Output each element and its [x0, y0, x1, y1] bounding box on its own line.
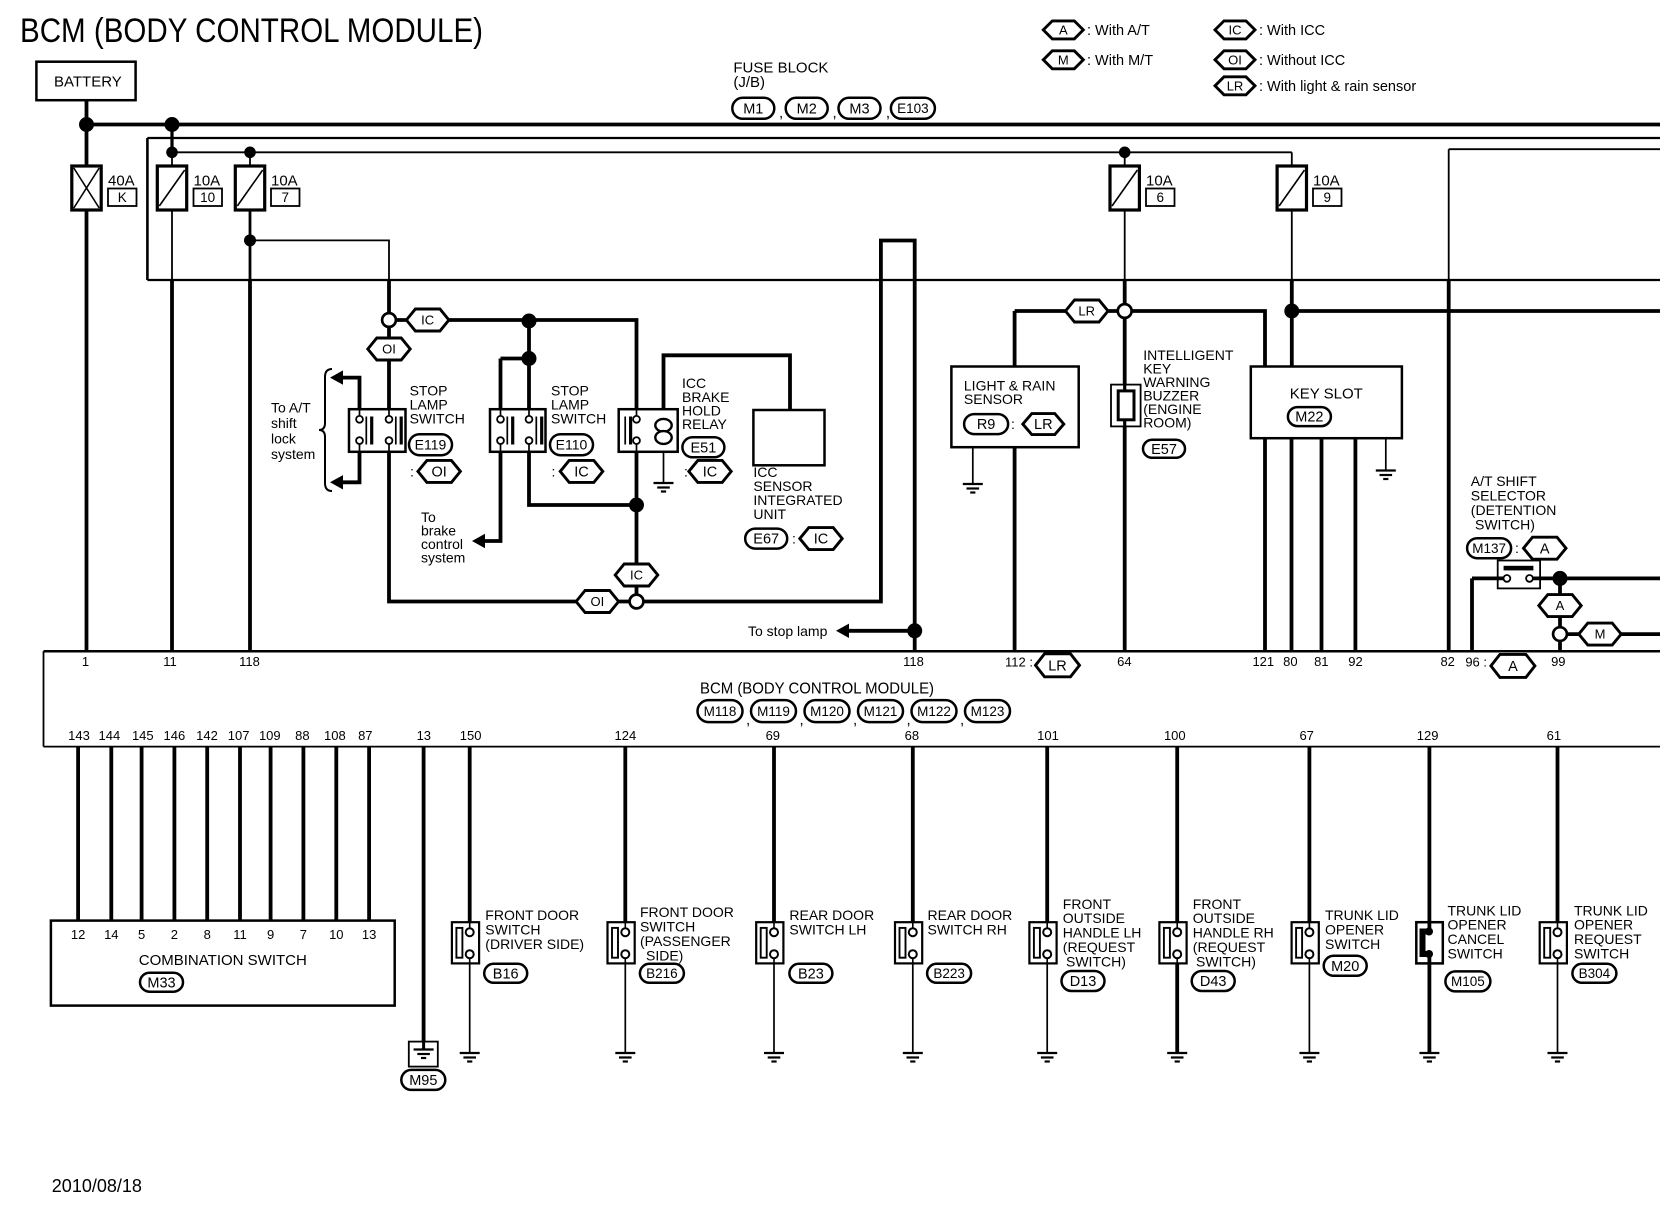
svg-text:M105: M105: [1451, 974, 1485, 989]
svg-text::: :: [792, 531, 796, 547]
svg-text:SWITCH): SWITCH): [1066, 953, 1126, 969]
svg-text:SWITCH RH: SWITCH RH: [928, 922, 1007, 938]
svg-text:E103: E103: [897, 101, 929, 116]
svg-text:SIDE): SIDE): [646, 948, 683, 964]
svg-text:SWITCH: SWITCH: [1325, 936, 1380, 952]
svg-text:D13: D13: [1070, 974, 1097, 990]
svg-text:shift: shift: [271, 415, 297, 431]
svg-text:LR: LR: [1034, 417, 1053, 433]
svg-text:,: ,: [886, 104, 890, 121]
svg-text:A: A: [1540, 541, 1550, 557]
svg-text:SWITCH LH: SWITCH LH: [789, 922, 866, 938]
svg-text:,: ,: [800, 711, 804, 728]
svg-text:B16: B16: [493, 966, 519, 982]
svg-text:SWITCH: SWITCH: [410, 411, 465, 427]
svg-text:10A: 10A: [1146, 172, 1173, 189]
svg-text:108: 108: [324, 728, 346, 743]
svg-text:8: 8: [204, 927, 211, 942]
svg-text:118: 118: [903, 654, 924, 669]
svg-text:: With M/T: : With M/T: [1087, 53, 1153, 69]
svg-text:M20: M20: [1331, 959, 1359, 975]
svg-text:129: 129: [1417, 728, 1439, 743]
svg-text:M119: M119: [757, 704, 790, 719]
svg-text:IC: IC: [814, 532, 829, 548]
svg-text:13: 13: [417, 728, 431, 743]
svg-text:10A: 10A: [271, 172, 298, 189]
svg-text:14: 14: [104, 927, 118, 942]
svg-text:7: 7: [281, 190, 289, 205]
svg-text:A: A: [1508, 659, 1518, 675]
svg-text:SWITCH: SWITCH: [1574, 946, 1629, 962]
svg-text:lock: lock: [271, 431, 297, 447]
svg-text:96 :: 96 :: [1465, 655, 1487, 670]
svg-text:system: system: [271, 446, 315, 462]
svg-text:1: 1: [82, 654, 89, 669]
svg-text:SWITCH): SWITCH): [1196, 953, 1256, 969]
svg-text:(J/B): (J/B): [733, 74, 765, 91]
svg-text:SWITCH: SWITCH: [551, 411, 606, 427]
svg-text:12: 12: [71, 927, 85, 942]
svg-text:LR: LR: [1048, 658, 1067, 674]
svg-text:: Without ICC: : Without ICC: [1259, 53, 1345, 69]
svg-text:146: 146: [164, 728, 186, 743]
svg-text:IC: IC: [703, 465, 718, 481]
svg-text:E119: E119: [415, 437, 447, 453]
svg-text:M2: M2: [797, 101, 817, 117]
svg-text:K: K: [118, 190, 127, 205]
svg-text::: :: [1515, 540, 1519, 556]
svg-text:145: 145: [132, 728, 154, 743]
svg-text:OI: OI: [382, 342, 396, 357]
svg-text:10A: 10A: [194, 172, 221, 189]
svg-text:9: 9: [1323, 190, 1331, 205]
svg-text:M3: M3: [849, 101, 869, 117]
svg-text:IC: IC: [574, 465, 589, 481]
svg-text:81: 81: [1314, 654, 1328, 669]
svg-text:M121: M121: [864, 704, 898, 719]
svg-text:M118: M118: [704, 704, 737, 719]
svg-text:100: 100: [1164, 728, 1186, 743]
svg-text:IC: IC: [630, 568, 643, 583]
svg-text:SENSOR: SENSOR: [964, 391, 1023, 407]
svg-text:11: 11: [233, 927, 247, 942]
svg-text:: With ICC: : With ICC: [1259, 23, 1325, 39]
svg-text:SWITCH: SWITCH: [1448, 946, 1503, 962]
svg-text:BCM (BODY CONTROL MODULE): BCM (BODY CONTROL MODULE): [700, 681, 934, 698]
svg-text:OI: OI: [1228, 52, 1242, 67]
svg-text:121: 121: [1252, 654, 1274, 669]
svg-text:61: 61: [1547, 728, 1561, 743]
svg-text:R9: R9: [977, 417, 996, 433]
svg-text:HANDLE LH: HANDLE LH: [1063, 924, 1142, 940]
svg-text:A: A: [1556, 598, 1565, 613]
svg-text:ROOM): ROOM): [1143, 415, 1191, 431]
svg-text:101: 101: [1037, 728, 1059, 743]
svg-text::: :: [552, 463, 556, 479]
svg-text:IC: IC: [1229, 23, 1242, 38]
svg-text:A: A: [1059, 23, 1068, 38]
svg-text:5: 5: [138, 927, 145, 942]
svg-text:2010/08/18: 2010/08/18: [52, 1176, 142, 1196]
svg-text:IC: IC: [421, 313, 434, 328]
svg-text:To stop lamp: To stop lamp: [748, 623, 828, 639]
svg-text:SWITCH): SWITCH): [1475, 516, 1535, 532]
svg-text:112 :: 112 :: [1005, 655, 1033, 670]
svg-text:M33: M33: [147, 975, 175, 991]
svg-text:82: 82: [1440, 654, 1454, 669]
svg-text:,: ,: [853, 711, 857, 728]
svg-text::: :: [1011, 416, 1015, 432]
svg-text:67: 67: [1299, 728, 1313, 743]
svg-text:69: 69: [766, 728, 780, 743]
svg-text:KEY SLOT: KEY SLOT: [1290, 385, 1363, 402]
svg-text:HANDLE RH: HANDLE RH: [1193, 924, 1274, 940]
svg-text:2: 2: [171, 927, 178, 942]
svg-text:,: ,: [833, 104, 837, 121]
svg-text:B304: B304: [1579, 966, 1611, 981]
svg-text:system: system: [421, 550, 465, 566]
svg-text:OI: OI: [591, 594, 605, 609]
svg-text:OI: OI: [431, 465, 446, 481]
svg-text:LR: LR: [1078, 304, 1095, 319]
svg-text:10A: 10A: [1313, 172, 1340, 189]
svg-text:,: ,: [960, 711, 964, 728]
svg-text:M122: M122: [917, 704, 951, 719]
svg-text:40A: 40A: [108, 172, 135, 189]
svg-text:13: 13: [362, 927, 376, 942]
svg-text:68: 68: [905, 728, 919, 743]
svg-text:9: 9: [267, 927, 274, 942]
svg-text:92: 92: [1348, 654, 1362, 669]
svg-text::: :: [410, 463, 414, 479]
svg-text:M120: M120: [810, 704, 844, 719]
svg-text:,: ,: [907, 711, 911, 728]
svg-text:118: 118: [239, 654, 260, 669]
svg-text:150: 150: [460, 728, 482, 743]
svg-text:UNIT: UNIT: [753, 506, 786, 522]
svg-text:M: M: [1595, 627, 1606, 642]
svg-text:87: 87: [358, 728, 372, 743]
svg-text:D43: D43: [1200, 974, 1227, 990]
svg-text:B23: B23: [798, 966, 824, 982]
svg-text:7: 7: [300, 927, 307, 942]
svg-text:M95: M95: [409, 1073, 437, 1089]
svg-text:COMBINATION SWITCH: COMBINATION SWITCH: [139, 952, 307, 969]
svg-text:E110: E110: [556, 437, 588, 453]
svg-text:E67: E67: [753, 532, 779, 548]
svg-text:BCM (BODY CONTROL MODULE): BCM (BODY CONTROL MODULE): [20, 12, 483, 50]
svg-text:,: ,: [746, 711, 750, 728]
svg-text:124: 124: [615, 728, 637, 743]
svg-text:B223: B223: [933, 966, 965, 981]
svg-text:144: 144: [99, 728, 121, 743]
svg-text:107: 107: [228, 728, 250, 743]
svg-text:109: 109: [259, 728, 281, 743]
svg-text:To A/T: To A/T: [271, 400, 311, 416]
svg-text:142: 142: [196, 728, 218, 743]
svg-text:E57: E57: [1151, 442, 1177, 458]
svg-text:11: 11: [163, 654, 177, 669]
svg-text:143: 143: [68, 728, 90, 743]
svg-text:E51: E51: [690, 440, 716, 456]
svg-text:6: 6: [1156, 190, 1164, 205]
svg-text:B216: B216: [646, 966, 678, 981]
svg-text:88: 88: [295, 728, 309, 743]
svg-text:80: 80: [1283, 654, 1297, 669]
svg-text:M1: M1: [743, 101, 763, 117]
svg-text:64: 64: [1117, 654, 1131, 669]
svg-text:10: 10: [200, 190, 215, 205]
svg-text:10: 10: [329, 927, 343, 942]
svg-text:M: M: [1058, 52, 1069, 67]
svg-text:99: 99: [1551, 654, 1565, 669]
svg-text:: With light & rain sensor: : With light & rain sensor: [1259, 79, 1416, 95]
svg-text:,: ,: [779, 104, 783, 121]
svg-text:LR: LR: [1227, 78, 1244, 93]
svg-text:M137: M137: [1472, 541, 1506, 556]
svg-text:BATTERY: BATTERY: [54, 73, 122, 90]
svg-text:RELAY: RELAY: [682, 416, 728, 432]
svg-text:(DRIVER SIDE): (DRIVER SIDE): [485, 936, 584, 952]
svg-text:: With A/T: : With A/T: [1087, 23, 1150, 39]
svg-text:M123: M123: [971, 704, 1005, 719]
svg-text:M22: M22: [1295, 410, 1323, 426]
